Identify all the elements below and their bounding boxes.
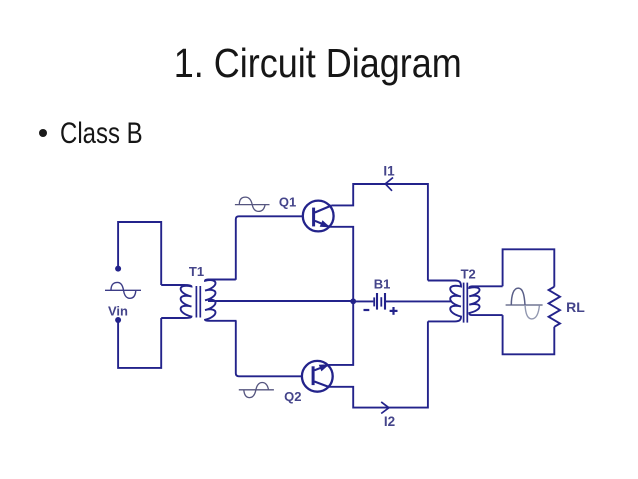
svg-text:Vin: Vin bbox=[108, 304, 128, 319]
slide title bbox=[37, 43, 597, 84]
arrow I1 bbox=[385, 178, 393, 191]
battery B1 bbox=[374, 293, 385, 310]
node Vin + terminal bbox=[115, 266, 121, 272]
wire Vin top terminal to T1 primary top bbox=[118, 222, 161, 285]
node Vin - terminal bbox=[115, 317, 121, 323]
source Vin sine symbol bbox=[105, 282, 141, 298]
svg-text:RL: RL bbox=[566, 299, 585, 315]
wire junction to battery bbox=[353, 300, 373, 302]
arrow I2 bbox=[381, 402, 389, 414]
bullet text Class B bbox=[60, 119, 143, 149]
transformer T2 core bbox=[464, 283, 468, 323]
wire Q1 emitter to junction bbox=[330, 227, 353, 301]
bullet point bbox=[39, 129, 47, 137]
wire T1 secondary bottom to Q2 base bbox=[236, 321, 302, 377]
transformer T1 primary winding bbox=[161, 285, 191, 318]
svg-text:I1: I1 bbox=[383, 163, 395, 178]
svg-text:I2: I2 bbox=[384, 414, 395, 429]
svg-text:Q2: Q2 bbox=[284, 389, 301, 404]
wire Q1 collector to top rail to T2 primary top bbox=[332, 184, 428, 281]
transistor Q2 bbox=[302, 361, 333, 392]
svg-text:T2: T2 bbox=[461, 267, 476, 282]
transformer T1 secondary winding bbox=[205, 280, 237, 321]
transformer T1 core bbox=[196, 286, 200, 318]
svg-text:B1: B1 bbox=[374, 277, 391, 292]
transformer T2 primary winding bbox=[428, 281, 461, 322]
svg-text:T1: T1 bbox=[189, 264, 204, 279]
wire battery to T2 center tap bbox=[386, 300, 452, 302]
transformer T2 secondary winding bbox=[469, 286, 502, 315]
label - minus bbox=[364, 309, 370, 311]
label + plus bbox=[390, 307, 398, 315]
wire Vin bottom terminal to T1 primary bottom bbox=[118, 318, 161, 368]
output sine symbol bbox=[506, 288, 543, 319]
sine symbol at Q1 base bbox=[235, 197, 270, 211]
wire T1 center tap to junction bbox=[208, 300, 353, 302]
wire Q2 collector to bottom rail to T2 primary bottom bbox=[328, 321, 428, 407]
transistor Q1 bbox=[303, 201, 334, 232]
node junction emitters/battery bbox=[350, 298, 356, 304]
sine symbol at Q2 base bbox=[239, 383, 274, 398]
wire T1 secondary top to Q1 base bbox=[236, 216, 303, 279]
svg-text:Q1: Q1 bbox=[279, 194, 296, 209]
resistor RL bbox=[549, 287, 560, 327]
wire load loop bbox=[503, 249, 555, 354]
wire junction to Q2 emitter bbox=[329, 301, 354, 365]
